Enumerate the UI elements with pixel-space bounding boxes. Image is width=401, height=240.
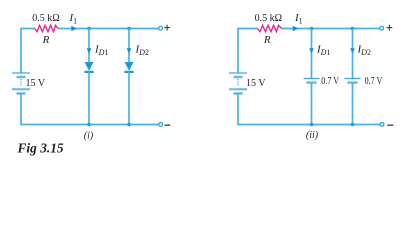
label R (i): [42, 34, 50, 46]
wire: branch 1 upper (ii): [311, 29, 313, 79]
wire: top from resistor to + terminal (ii): [282, 28, 380, 30]
label 0.7 V branch 2 (ii): [365, 76, 383, 87]
battery 15V (i) plates: [12, 73, 30, 94]
node: junction top of branch 1 (ii): [310, 27, 314, 31]
label I1 (ii): [294, 12, 303, 26]
diode D1 (i): [84, 62, 93, 72]
svg-text:15 V: 15 V: [246, 78, 266, 89]
wire: D2 branch lower (i): [128, 72, 130, 125]
svg-text:0.5 kΩ: 0.5 kΩ: [255, 13, 282, 24]
current arrow ID1 (i): [87, 48, 92, 53]
diode D2 (i): [124, 62, 133, 72]
wire: left lower + bottom rail (i): [21, 94, 159, 125]
wire: left lower + bottom rail (ii): [238, 94, 380, 125]
node: junction bottom of branch 2 (ii): [351, 123, 355, 127]
label + (ii): [387, 25, 393, 31]
current arrow I1 (ii): [293, 26, 299, 32]
label minus (i): [165, 124, 171, 126]
svg-text:(i): (i): [84, 131, 94, 142]
label ID2 (ii): [357, 44, 371, 58]
wire: top-left segment from corner to resistor (ii): [238, 29, 258, 74]
svg-text:0.7 V: 0.7 V: [321, 76, 339, 87]
wire: D1 branch upper (i): [88, 29, 90, 63]
wire: top from resistor to + terminal (i): [58, 28, 159, 30]
svg-text:R: R: [42, 34, 50, 46]
label I1 (i): [69, 12, 78, 26]
label 0.7 V branch 1 (ii): [321, 76, 339, 87]
wire: branch 2 upper (ii): [352, 29, 354, 79]
svg-text:Fig 3.15: Fig 3.15: [17, 141, 64, 156]
terminal - circle (ii): [380, 123, 384, 127]
svg-text:0.5 kΩ: 0.5 kΩ: [32, 13, 59, 24]
node: junction bottom of D2 branch (i): [127, 123, 131, 127]
battery cell 0.7V branch 2 (ii): [345, 79, 361, 83]
label R (ii): [263, 34, 271, 46]
current arrow ID2 (ii): [350, 48, 355, 53]
current arrow ID2 (i): [127, 48, 132, 53]
terminal + circle (ii): [380, 26, 384, 30]
svg-text:R: R: [263, 34, 271, 46]
label 15 V (i): [26, 78, 46, 89]
wire: D1 branch lower (i): [88, 72, 90, 125]
label minus (ii): [387, 124, 393, 126]
resistor R (i) zigzag: [35, 25, 59, 31]
label 0.5 kOhm (ii): [255, 13, 282, 24]
terminal - circle (i): [159, 123, 163, 127]
caption Fig 3.15: [17, 141, 64, 156]
node: junction bottom of D1 branch (i): [87, 123, 91, 127]
node: junction top of branch 2 (ii): [351, 27, 355, 31]
resistor R (ii) zigzag: [258, 25, 282, 31]
label + (i): [164, 25, 170, 31]
label ID2 (i): [135, 44, 149, 58]
svg-text:15 V: 15 V: [26, 78, 46, 89]
wire: D2 branch upper (i): [128, 29, 130, 63]
label 0.5 kOhm (i): [32, 13, 59, 24]
wire: branch 2 lower (ii): [352, 83, 354, 125]
node: junction bottom of branch 1 (ii): [310, 123, 314, 127]
svg-text:0.7 V: 0.7 V: [365, 76, 383, 87]
label ID1 (i): [94, 44, 108, 58]
svg-text:(ii): (ii): [306, 130, 319, 141]
wire: top-left segment from corner to resistor (i): [21, 29, 35, 74]
label ID1 (ii): [316, 44, 330, 58]
terminal + circle (i): [159, 26, 163, 30]
label (i) caption: [84, 131, 94, 142]
current arrow I1 (i): [71, 26, 77, 32]
current arrow ID1 (ii): [309, 48, 314, 53]
battery cell 0.7V branch 1 (ii): [304, 79, 320, 83]
node: junction top of D1 branch (i): [87, 27, 91, 31]
battery 15V (ii) plates: [229, 73, 247, 94]
label (ii) caption: [306, 130, 319, 141]
node: junction top of D2 branch (i): [127, 27, 131, 31]
label 15 V (ii): [246, 78, 266, 89]
wire: branch 1 lower (ii): [311, 83, 313, 125]
